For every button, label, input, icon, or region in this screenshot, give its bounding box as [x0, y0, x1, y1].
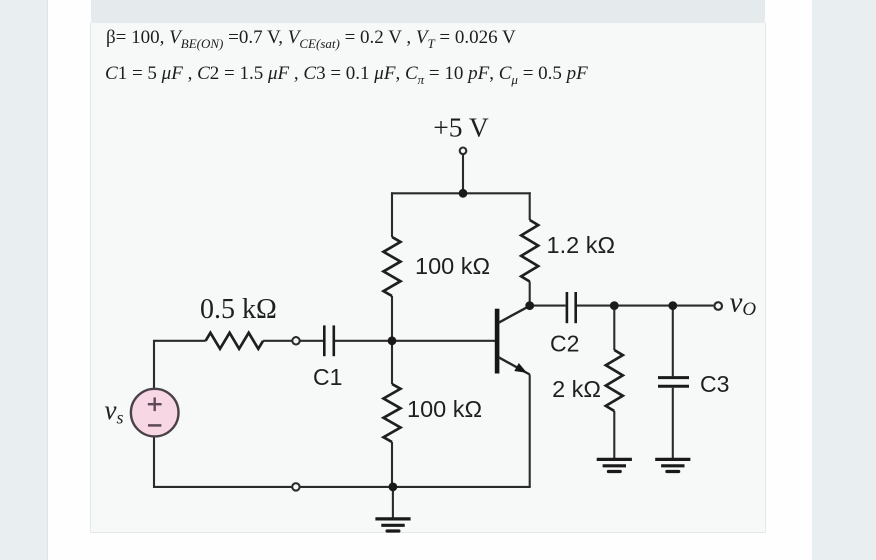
wire base node to transistor — [392, 340, 495, 342]
wire C2 to output terminal — [577, 305, 713, 307]
junction dot 2k top node — [610, 301, 619, 310]
wire VCC stub — [462, 155, 464, 193]
wire ground stub center — [392, 487, 394, 518]
wire input terminal to C1 — [300, 340, 323, 342]
svg-text:C1: C1 — [313, 364, 342, 390]
terminal input top open circle — [292, 337, 299, 344]
resistor 2k — [606, 350, 623, 411]
resistor 1.2k — [521, 220, 538, 282]
capacitor C2 plates — [567, 292, 576, 323]
ground C3 — [655, 459, 690, 471]
svg-text:1.2 kΩ: 1.2 kΩ — [547, 232, 616, 258]
given-parameters text line 1 — [106, 27, 516, 52]
wire source top lead — [154, 341, 206, 389]
transistor Q1 base bar — [495, 309, 500, 374]
svg-text:100 kΩ: 100 kΩ — [407, 396, 482, 422]
junction dot VCC rail — [459, 189, 468, 198]
given-parameters text line 2 — [105, 63, 588, 88]
figure area — [90, 23, 766, 533]
wire emitter vertical — [529, 375, 531, 488]
svg-text:+5 V: +5 V — [433, 112, 489, 143]
terminal VCC open circle — [460, 148, 467, 155]
wire 1.2k to collector node — [529, 282, 531, 306]
resistor 100k upper — [384, 237, 401, 296]
wire bottom rail right — [300, 486, 530, 488]
svg-text:2 kΩ: 2 kΩ — [552, 376, 601, 402]
wire right vertical to 1.2k — [529, 192, 531, 220]
junction dot C3 top node — [668, 301, 677, 310]
capacitor C3 plates — [658, 378, 689, 387]
transistor Q1 emitter lead — [499, 357, 530, 374]
svg-text:100 kΩ: 100 kΩ — [415, 253, 490, 279]
svg-text:C3: C3 — [700, 371, 729, 397]
wire bottom rail left — [154, 436, 292, 487]
resistor 0.5k — [206, 333, 264, 349]
junction dot collector node — [525, 301, 534, 310]
svg-text:0.5 kΩ: 0.5 kΩ — [200, 294, 277, 325]
transistor Q1 collector lead — [499, 306, 530, 323]
wire collector node to C2 — [530, 305, 566, 307]
junction dot bottom rail — [389, 483, 398, 492]
svg-text:C2: C2 — [550, 331, 579, 357]
capacitor C1 plates — [324, 325, 334, 356]
wire 2k bottom lead — [613, 411, 615, 459]
ground center — [375, 519, 410, 531]
wire C3 bottom lead — [672, 388, 674, 459]
source vs minus sign — [148, 424, 161, 427]
wire C1 to base node — [335, 340, 392, 342]
wire 2k top lead — [613, 306, 615, 350]
terminal input bottom open circle — [292, 483, 299, 490]
wire top rail — [391, 192, 531, 194]
source vs plus sign — [148, 397, 162, 411]
junction dot base node — [388, 336, 397, 345]
wire 0.5k to input terminal — [263, 340, 292, 342]
ground 2k — [597, 459, 632, 471]
transistor Q1 emitter arrow — [514, 363, 527, 373]
wire left vertical middle — [391, 296, 393, 384]
wire left vertical lower — [391, 442, 393, 487]
svg-text:vs: vs — [105, 395, 124, 428]
wire left vertical upper — [391, 192, 393, 237]
wire C3 top lead — [672, 306, 674, 377]
svg-text:vO: vO — [730, 287, 757, 321]
source vs circle — [131, 389, 179, 437]
resistor 100k lower — [384, 384, 401, 442]
top band — [91, 0, 765, 23]
terminal output open circle — [714, 302, 722, 310]
